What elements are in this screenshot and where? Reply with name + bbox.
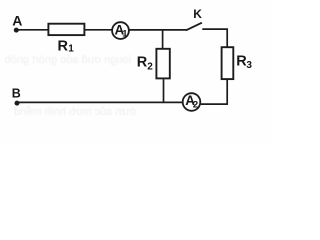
svg-text:1: 1 — [68, 44, 74, 55]
terminal node B — [15, 101, 20, 106]
ammeter A1 — [112, 22, 129, 39]
wire A to R1 — [16, 29, 49, 31]
wire bottom B to A2 — [17, 101, 183, 103]
resistor R3 — [222, 47, 234, 79]
svg-text:2: 2 — [193, 99, 198, 110]
svg-text:A: A — [12, 13, 22, 29]
svg-text:K: K — [193, 7, 202, 21]
svg-text:R: R — [58, 39, 69, 55]
svg-text:2: 2 — [147, 62, 153, 73]
svg-text:B: B — [12, 87, 21, 101]
ammeter A2 — [183, 93, 201, 111]
wire switch to R3 corner — [202, 29, 227, 47]
wire junction drop to R2 — [162, 30, 164, 49]
switch K lever — [186, 23, 202, 31]
wire R3 bottom lead and corner to A2 — [201, 80, 227, 104]
terminal node A — [14, 28, 19, 33]
svg-text:3: 3 — [246, 60, 252, 71]
svg-text:1: 1 — [122, 29, 128, 40]
wire R1 to A1 — [85, 29, 113, 31]
bleed-through ghost text line 1 — [4, 54, 131, 69]
resistor R2 — [156, 49, 169, 79]
resistor R1 — [48, 24, 84, 35]
wire R2 bottom lead — [163, 79, 165, 103]
bleed-through ghost text line 2 — [14, 106, 136, 121]
svg-text:R: R — [137, 55, 148, 71]
wire A1 to switch K — [129, 29, 186, 31]
